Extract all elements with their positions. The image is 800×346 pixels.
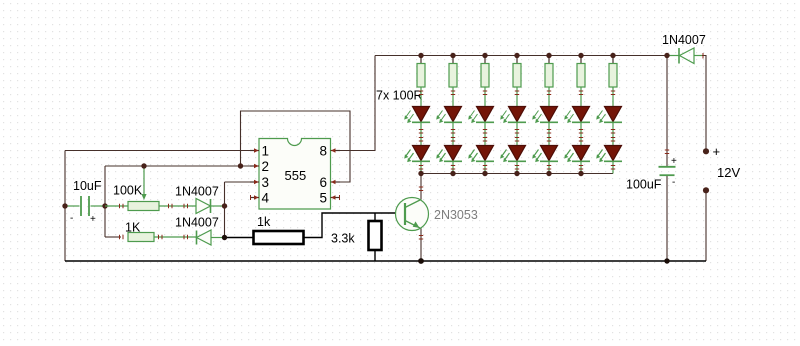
node: D2 junction (black) xyxy=(222,235,227,240)
svg-text:1K: 1K xyxy=(125,221,141,235)
wire: LED top supply rail xyxy=(375,55,679,57)
pin 2 of U1 xyxy=(250,159,269,174)
node: 100uF ground junction xyxy=(664,258,669,263)
pin 4 of U1 (unconnected stub) xyxy=(251,191,270,206)
wire: emitter lead to ground rail xyxy=(420,229,422,262)
node: wiper junction on pin2 wire xyxy=(141,163,146,168)
svg-text:4: 4 xyxy=(262,191,270,206)
node: bottom rail junction column 1 xyxy=(418,171,423,176)
resistor R2 1K xyxy=(120,233,197,242)
resistor R4 3.3k (black) xyxy=(369,221,382,250)
node: bottom rail junction column 5 xyxy=(546,171,551,176)
svg-text:12V: 12V xyxy=(717,165,740,180)
svg-text:-: - xyxy=(70,213,73,224)
LED row2 column 2 xyxy=(436,146,462,174)
capacitor C1 10uF xyxy=(65,196,105,225)
LED row2 column 6 xyxy=(564,146,590,174)
wire: diode D3 to battery + riser xyxy=(694,56,706,149)
op-amp/IC U1 555 timer body xyxy=(259,139,331,210)
node: C1/R100K junction xyxy=(102,203,107,208)
resistor R3 1k (black) xyxy=(254,231,304,244)
wire: timing network vertical (pin2 down to 1K row) xyxy=(104,166,106,237)
svg-text:1: 1 xyxy=(262,144,270,159)
diode D1 1N4007 (points right) xyxy=(196,199,225,214)
node: top rail junction column 6 xyxy=(578,53,583,58)
wire: pin6 riser loop to pin2 (top box) xyxy=(241,111,351,182)
node: C1 left junction xyxy=(62,203,67,208)
pin 5 of U1 (unconnected stub) xyxy=(319,191,339,206)
wire: pin8 to VCC riser xyxy=(340,56,375,151)
node: bottom rail junction column 3 xyxy=(482,171,487,176)
resistor 100R column 7 xyxy=(609,56,617,107)
capacitor C2 100uF xyxy=(659,150,678,188)
node: top rail junction column 2 xyxy=(450,53,455,58)
diode D3 1N4007 (top right, points left) xyxy=(667,48,703,64)
resistor 100R column 1 xyxy=(417,56,425,107)
wire: pin3 of 555 horizontal xyxy=(225,181,251,183)
pin 3 of U1 xyxy=(250,175,269,190)
LED row2 column 1 xyxy=(404,146,430,174)
wire: collector lead from LED rail xyxy=(420,174,422,200)
LED row1 column 3 xyxy=(468,107,494,146)
svg-text:+: + xyxy=(90,214,96,225)
svg-text:+: + xyxy=(671,156,677,167)
battery terminal - (12V) xyxy=(703,187,709,193)
svg-text:+: + xyxy=(713,144,721,159)
pin 8 of U1 xyxy=(319,144,340,159)
LED row1 column 2 xyxy=(436,107,462,146)
LED row1 column 4 xyxy=(500,107,526,146)
svg-text:555: 555 xyxy=(285,168,307,183)
wire: 100uF bottom lead to ground xyxy=(666,176,668,261)
resistor 100R column 4 xyxy=(513,56,521,107)
svg-text:1N4007: 1N4007 xyxy=(175,216,219,230)
battery terminal + (12V) xyxy=(703,148,709,154)
resistor R1 100K (pot body) xyxy=(105,202,196,211)
svg-text:8: 8 xyxy=(319,144,327,159)
svg-text:3.3k: 3.3k xyxy=(331,232,355,246)
resistor 100R column 3 xyxy=(481,56,489,107)
LED row2 column 5 xyxy=(532,146,558,174)
node: top rail junction column 3 xyxy=(482,53,487,58)
svg-text:2: 2 xyxy=(262,159,270,174)
svg-text:1k: 1k xyxy=(257,215,271,229)
LED row2 column 7 xyxy=(596,146,622,174)
diode D2 1N4007 (points left) xyxy=(197,230,225,245)
wire: LED bottom rail xyxy=(421,173,613,175)
svg-text:7x 100R: 7x 100R xyxy=(376,89,423,103)
wire: pin2 of 555 horizontal xyxy=(105,165,250,167)
wire: 3.3k top lead (black) xyxy=(374,213,376,221)
wire: D2 junction to 1k resistor (black) xyxy=(225,237,255,239)
node: top rail junction column 1 xyxy=(418,53,423,58)
node: rail/100uF junction xyxy=(664,53,669,58)
wire: ground rail (black) xyxy=(65,260,706,262)
wire: left vertical rail xyxy=(64,151,66,262)
svg-text:-: - xyxy=(672,177,675,188)
LED row1 column 5 xyxy=(532,107,558,146)
svg-text:100K: 100K xyxy=(113,184,143,198)
svg-text:1N4007: 1N4007 xyxy=(662,33,706,47)
svg-text:3: 3 xyxy=(262,175,270,190)
transistor Q1 2N3053 xyxy=(396,187,429,239)
wire: pin1 of 555 to left rail xyxy=(65,150,250,152)
node: top rail junction column 5 xyxy=(546,53,551,58)
node: bottom rail junction column 6 xyxy=(578,171,583,176)
resistor 100R column 2 xyxy=(449,56,457,107)
LED row2 column 3 xyxy=(468,146,494,174)
node: top rail junction column 4 xyxy=(514,53,519,58)
node: emitter/ground junction xyxy=(418,258,424,264)
pin 6 of U1 xyxy=(319,175,340,190)
wire: jog to 1K left lead xyxy=(105,236,121,238)
pin 1 of U1 xyxy=(250,144,269,159)
svg-text:10uF: 10uF xyxy=(73,179,102,193)
resistor 100R column 6 xyxy=(577,56,585,107)
LED row2 column 4 xyxy=(500,146,526,174)
node: D1 cathode junction xyxy=(222,203,227,208)
resistor 100R column 5 xyxy=(545,56,553,107)
LED row1 column 6 xyxy=(564,107,590,146)
svg-text:100uF: 100uF xyxy=(626,178,662,192)
svg-text:2N3053: 2N3053 xyxy=(434,208,478,222)
node: top rail junction column 7 xyxy=(610,53,615,58)
wire: 1k resistor to transistor base (black jog) xyxy=(303,213,404,238)
LED row1 column 7 xyxy=(596,107,622,146)
wire: 100uF top lead from rail xyxy=(666,56,668,167)
svg-text:6: 6 xyxy=(319,175,327,190)
wire: pin3 vertical down to diode junctions xyxy=(224,182,226,237)
node: bottom rail junction column 4 xyxy=(514,171,519,176)
svg-text:1N4007: 1N4007 xyxy=(175,185,219,199)
svg-text:5: 5 xyxy=(319,191,327,206)
node: bottom rail junction column 2 xyxy=(450,171,455,176)
node: pin6-loop junction on pin2 wire xyxy=(238,163,243,168)
wire: battery - down to ground rail xyxy=(705,193,707,261)
wiper arrow of 100K pot xyxy=(141,166,146,200)
LED row1 column 1 xyxy=(404,107,430,146)
wire: 3.3k bottom lead (black) xyxy=(374,250,376,261)
